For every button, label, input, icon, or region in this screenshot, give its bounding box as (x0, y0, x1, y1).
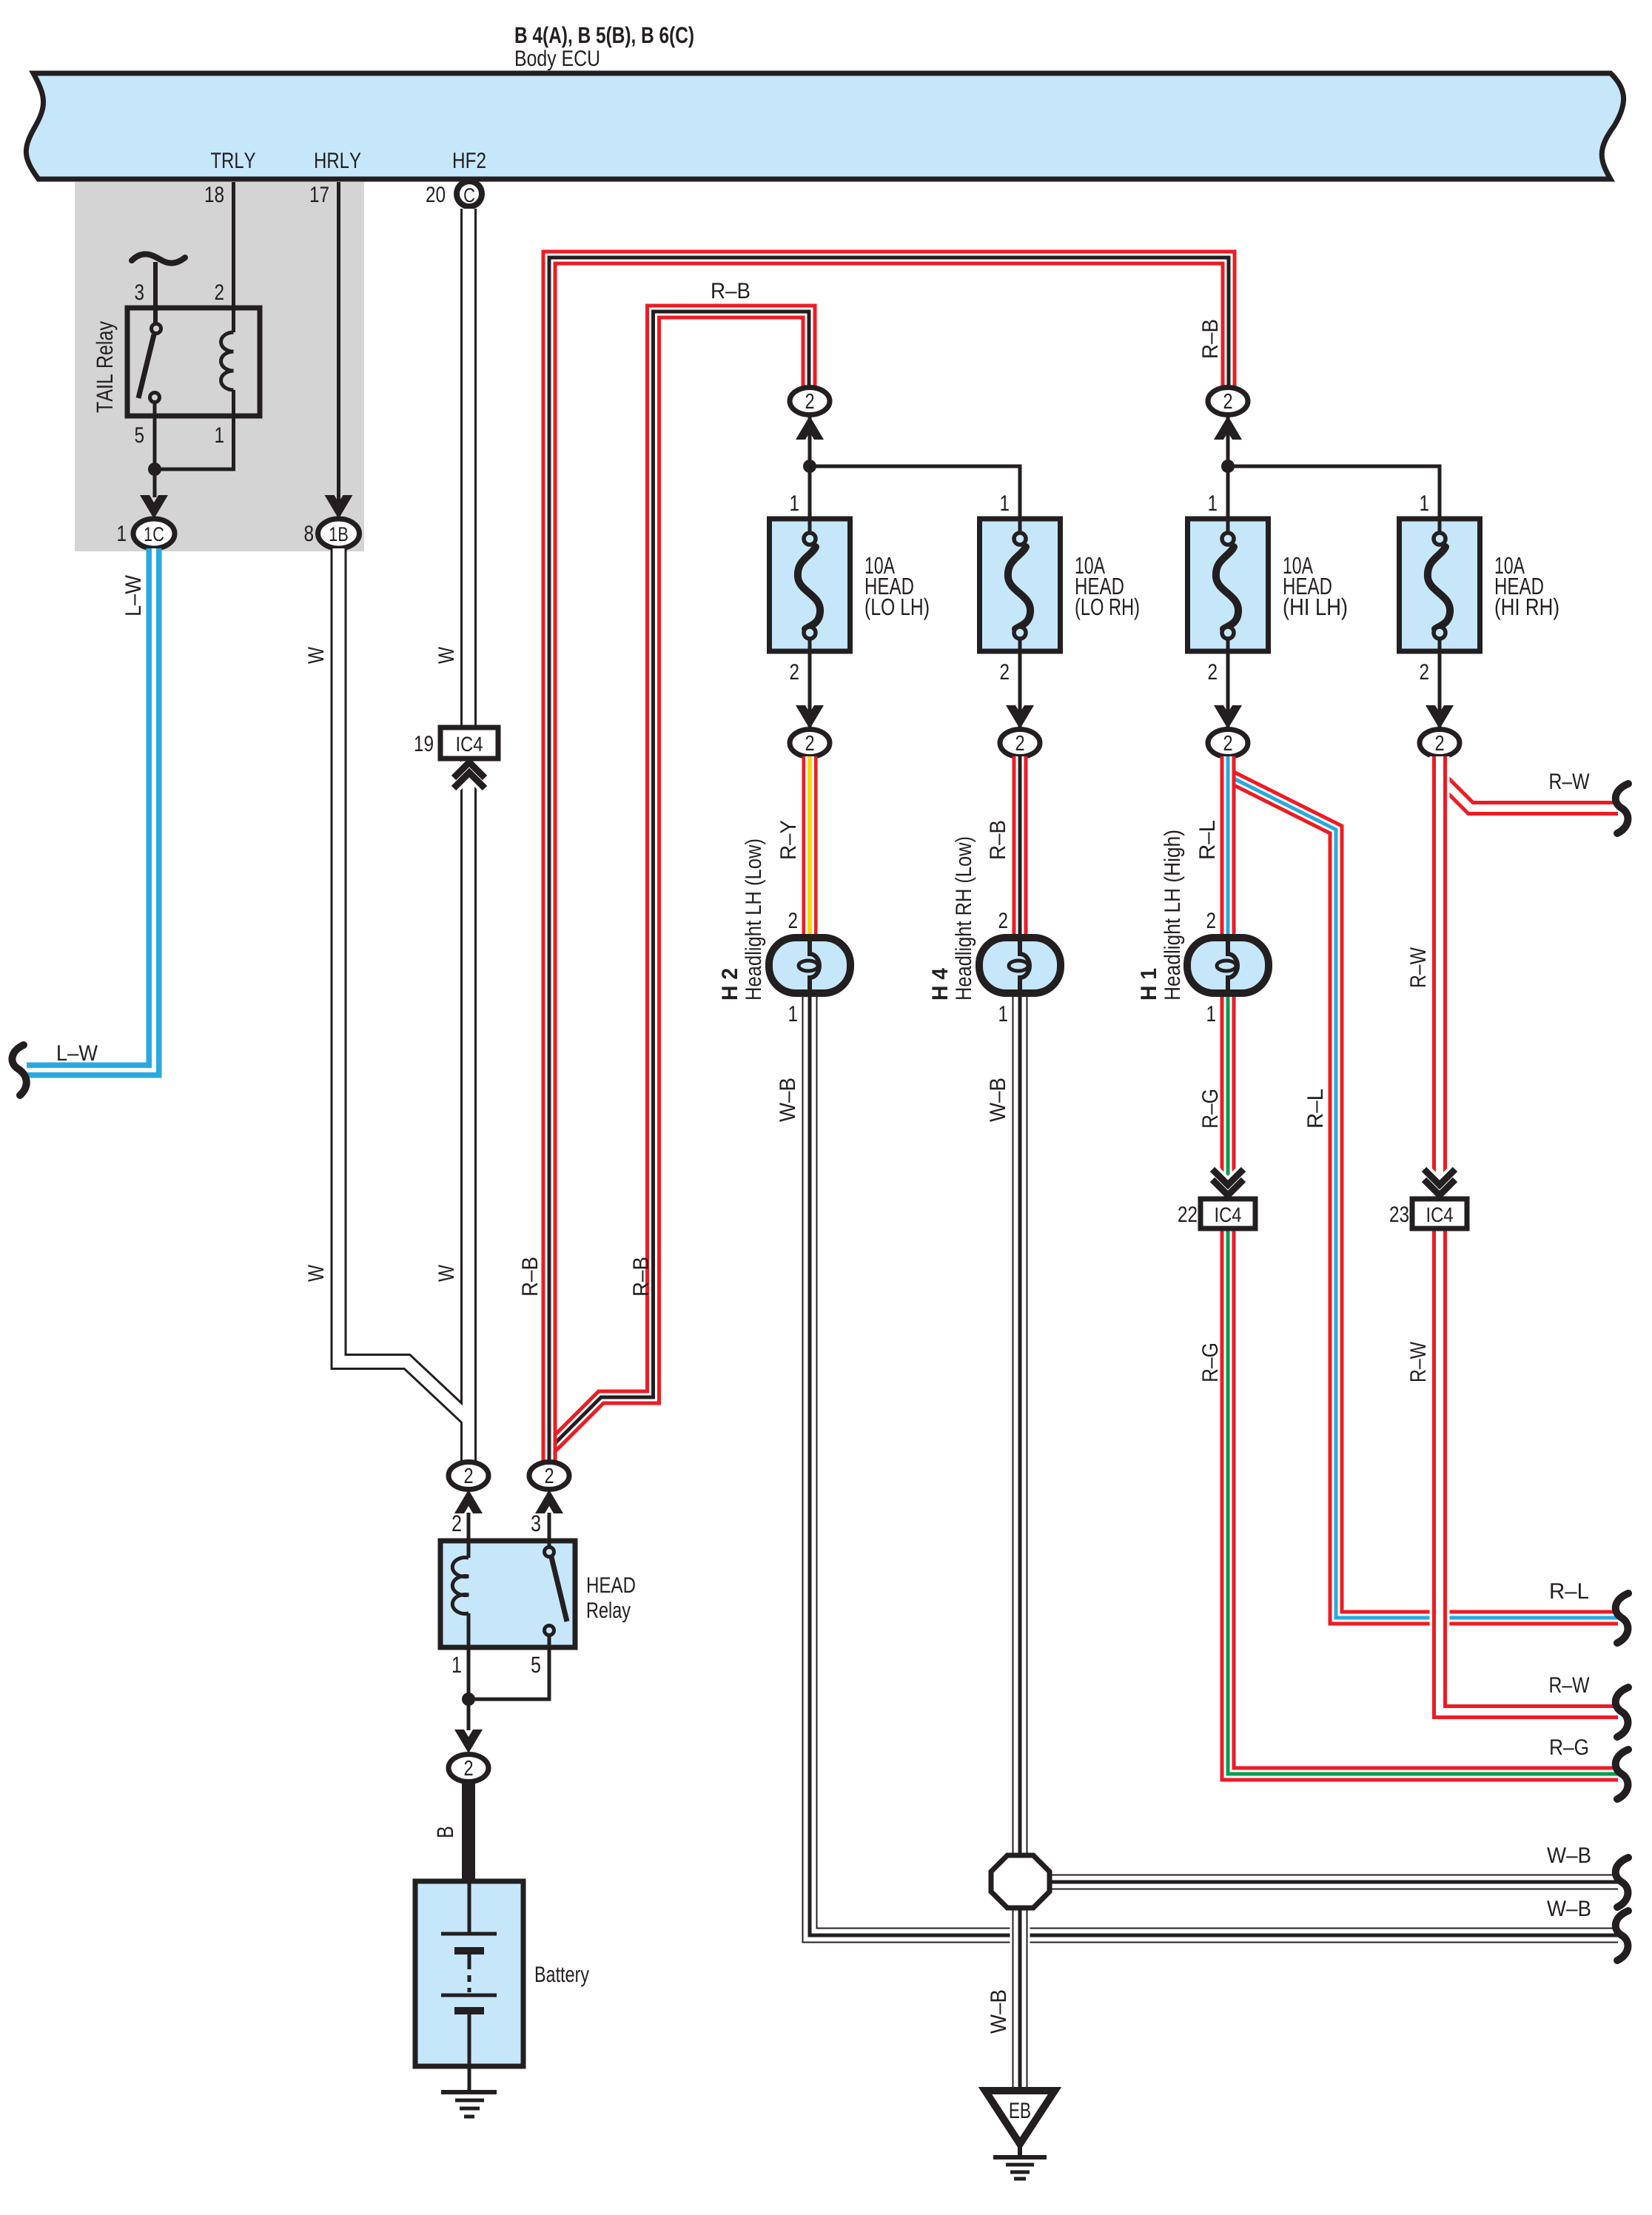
TAIL relay switch contact (138, 324, 161, 403)
arrow into connector 2 x1094 (796, 705, 824, 729)
fuse pin 1 label x1945 (1420, 495, 1428, 511)
pin 17 label (311, 186, 329, 202)
wire torn lead to switch pin 3 (153, 262, 158, 323)
wire label R-W at lower torn end (1551, 1677, 1590, 1693)
wire connector to HEAD relay pin3 (548, 1513, 551, 1541)
connector 2 below fuse x1378 (1000, 730, 1040, 757)
connector 2 HI LH feed (1208, 388, 1248, 415)
fuse F3 10A HEAD (HI LH) (1188, 519, 1269, 651)
H1 pin 2 label (1207, 912, 1215, 928)
wire L-W from 1C to left torn end (27, 548, 154, 1070)
label H 1 (1141, 969, 1156, 999)
connector 2 below fuse x1659 (1208, 730, 1248, 757)
wire fuse to connector x1378 (1018, 651, 1022, 727)
wire R-B to H4 (1013, 756, 1028, 938)
wire label R-L column3 (1199, 821, 1215, 858)
IC4 22 chevrons (1212, 1169, 1243, 1195)
TAIL relay pin 1 label (215, 427, 223, 443)
wire W from 1B (core) (339, 548, 469, 1419)
fuse pin 1 label x1659 (1209, 495, 1216, 511)
wire label R-G above IC4 (1202, 1090, 1218, 1127)
wire label R-B top (712, 283, 749, 298)
arrow into connector 2 x1378 (1006, 705, 1034, 729)
wire B battery to connector (462, 1781, 475, 1881)
connector 2 LO LH feed (790, 388, 830, 415)
fuse F4 10A HEAD (HI RH) (1400, 519, 1480, 651)
HEAD relay pin 5 label (531, 1657, 540, 1673)
wire R-B outer loop HEAD relay to HI LH fuse (549, 258, 1229, 1462)
wire R-L to H1 (1220, 756, 1236, 938)
pin 18 label (206, 186, 224, 202)
wire label R-B inner lower (633, 1258, 648, 1295)
connector 2 at HEAD relay switch (529, 1462, 569, 1490)
connector 2 below fuse x1945 (1420, 730, 1460, 757)
HEAD relay (440, 1541, 635, 1647)
connector 1C (133, 519, 175, 548)
wire junction to battery connector (467, 1699, 471, 1730)
battery (415, 1881, 589, 2092)
wire label W-B column2 (990, 1079, 1005, 1122)
wire R-W main to torn end (1440, 756, 1618, 1712)
wire label W-B above EB (990, 1991, 1006, 2034)
wire label W C upper (438, 647, 454, 664)
TAIL relay pin 3 label (135, 284, 144, 300)
wire W from HF2/C (core) (463, 209, 474, 1462)
wire label W-B at middle torn end (1547, 1847, 1590, 1863)
arrow into LO LH feed connector (796, 416, 824, 440)
H2 pin 1 label (789, 1006, 796, 1021)
Body ECU title label (516, 27, 694, 48)
connector 2 below fuse x1094 (790, 730, 830, 757)
arrow into HEAD relay coil connector (454, 1490, 483, 1513)
wire label R-L branch (1307, 1089, 1323, 1127)
junction dot LO feed (803, 460, 816, 473)
junction dot HI feed (1221, 460, 1235, 473)
wire TAIL relay pin 1 to junction (155, 416, 234, 469)
connector 2 at HEAD relay coil (449, 1462, 488, 1490)
fuse pin 2 label x1094 (790, 664, 799, 679)
IC4 19 chevrons (454, 762, 485, 788)
bulb H2 Headlight LH (Low) (769, 938, 850, 993)
battery ground (441, 2092, 497, 2117)
wire label W 1B upper (308, 647, 323, 664)
wire LO feed branch to LO RH fuse (810, 466, 1020, 519)
fuse pin 1 label x1094 (790, 495, 798, 511)
arrow into 1C (140, 495, 168, 519)
arrow into connector 2 x1659 (1214, 705, 1242, 729)
H1 pin 1 label (1207, 1006, 1215, 1021)
TAIL relay coil (221, 308, 234, 416)
wire label R-W column4 (1410, 947, 1426, 987)
pin 1 label of 1C (118, 525, 125, 541)
label Headlight RH (Low) (955, 838, 976, 999)
wire W-B octagon to EB (1010, 1906, 1030, 2091)
wire R-B inner loop HEAD relay to LO LH fuse (549, 312, 809, 1449)
HEAD relay coil (452, 1541, 469, 1647)
R-W upper torn end (1616, 784, 1628, 833)
wire fuse to connector x1659 (1226, 651, 1230, 727)
label Headlight LH (Low) (745, 840, 765, 999)
wire label L-W horizontal (58, 1045, 98, 1061)
ground junction octagon (991, 1855, 1050, 1908)
label H 2 (722, 969, 737, 999)
HEAD relay pin 3 label (531, 1515, 540, 1531)
wire R-Y to H2 (802, 756, 818, 938)
wire label W C lower (438, 1265, 454, 1282)
fuse pin 1 label x1378 (1001, 495, 1008, 511)
wire TAIL relay pin 5 to junction (153, 402, 157, 469)
TAIL relay pin 2 label (215, 284, 224, 300)
HEAD relay pin 1 label (453, 1657, 461, 1673)
wire label W-B column1 (779, 1079, 795, 1122)
arrow into HEAD relay switch connector (535, 1490, 563, 1513)
wire fuse to connector x1094 (808, 651, 812, 727)
wire label R-L at torn end (1551, 1583, 1588, 1599)
wire LO LH feed down (808, 414, 812, 519)
fuse F1 10A HEAD (LO LH) (770, 519, 850, 651)
wire label R-W below IC4 (1410, 1342, 1426, 1381)
fuse F2 10A HEAD (LO RH) (980, 519, 1061, 651)
TAIL relay (96, 308, 261, 416)
wire HI feed branch to HI RH fuse (1228, 466, 1440, 519)
pin 20 label (426, 186, 445, 202)
label H 4 (932, 968, 947, 999)
W-B lower torn end (1616, 1911, 1628, 1960)
wire HEAD relay pin1 to junction (467, 1647, 471, 1699)
wire W-B octagon to torn end (1050, 1875, 1618, 1890)
pin 8 label of 1B (305, 525, 313, 541)
R-W lower torn end (1616, 1687, 1628, 1737)
wire HRLY pin 17 to connector 1B (337, 182, 340, 520)
H2 pin 2 label (789, 912, 797, 928)
wire HI LH feed down (1226, 414, 1230, 519)
wire label R-G at torn end (1551, 1739, 1588, 1755)
arrow into 1B (325, 495, 353, 519)
wire R-G from H1 to torn end (1228, 997, 1618, 1774)
wire label R-Y (780, 821, 796, 858)
HEAD relay switch (545, 1541, 568, 1636)
connector IC4 no.23 (1412, 1199, 1467, 1228)
grey harness region (75, 182, 364, 551)
wire label R-B column2 (990, 821, 1005, 858)
wire TRLY pin 18 to TAIL relay coil (232, 182, 235, 308)
arrow into HI LH feed connector (1214, 416, 1242, 440)
wire label R-B outer lower (522, 1258, 537, 1295)
fuse pin 2 label x1659 (1209, 664, 1217, 679)
connector 2 battery feed (449, 1755, 488, 1782)
fuse pin 2 label x1378 (1001, 664, 1009, 679)
wire label W 1B lower (308, 1265, 323, 1282)
wire fuse to connector x1945 (1438, 651, 1442, 727)
H4 pin 1 label (999, 1006, 1007, 1021)
connector IC4 no.19 (415, 727, 498, 759)
bulb H4 Headlight RH (Low) (979, 938, 1061, 993)
net HF2 label (454, 152, 486, 168)
wire label R-W at upper torn end (1551, 773, 1590, 789)
wire label B (437, 1827, 453, 1837)
R-G torn end (1616, 1750, 1628, 1799)
ECU Body ECU connector band (26, 73, 1623, 179)
wire W from HF2/C (casing) (460, 209, 477, 1462)
wire label R-G below IC4 (1202, 1344, 1218, 1381)
R-L torn end (1616, 1593, 1628, 1643)
wire HEAD relay pin5 to junction (469, 1635, 549, 1699)
connector C pin 20 (457, 181, 482, 206)
wire junction to connector 1C (153, 469, 157, 497)
wire R-L branch to torn end (1228, 776, 1618, 1618)
arrow into battery connector (454, 1730, 483, 1753)
net HRLY label (315, 152, 361, 168)
wire R-W branch to torn end (1440, 777, 1618, 808)
TAIL relay pin 5 label (135, 427, 144, 443)
junction dot TAIL relay output (148, 463, 161, 476)
H4 pin 2 label (999, 912, 1007, 928)
wire W-B from H4 to ground junction (1013, 997, 1028, 1857)
wire connector to HEAD relay pin2 (467, 1513, 471, 1541)
L-W torn end (12, 1045, 26, 1095)
IC4 23 chevrons (1424, 1169, 1455, 1195)
wire label R-B right vertical (1202, 320, 1218, 357)
label Headlight LH (High) (1164, 831, 1184, 999)
connector 1B (318, 519, 360, 548)
bulb H1 Headlight LH (High) (1187, 938, 1269, 993)
arrow into connector 2 x1945 (1426, 705, 1454, 729)
net TRLY label (211, 152, 255, 168)
junction dot HEAD relay output (462, 1693, 475, 1706)
fuse pin 2 label x1945 (1420, 664, 1428, 679)
HEAD relay pin 2 label (452, 1515, 460, 1531)
wire label L-W vertical (125, 575, 141, 615)
connector IC4 no.22 (1201, 1199, 1255, 1228)
wire label W-B at lower torn end (1547, 1900, 1590, 1916)
TAIL relay torn wavy lead (132, 254, 185, 263)
wire W-B from H2 to torn end (810, 997, 1618, 1935)
W-B middle torn end (1616, 1858, 1628, 1907)
wire W from 1B (casing) (339, 548, 469, 1419)
ground EB (985, 2091, 1055, 2179)
